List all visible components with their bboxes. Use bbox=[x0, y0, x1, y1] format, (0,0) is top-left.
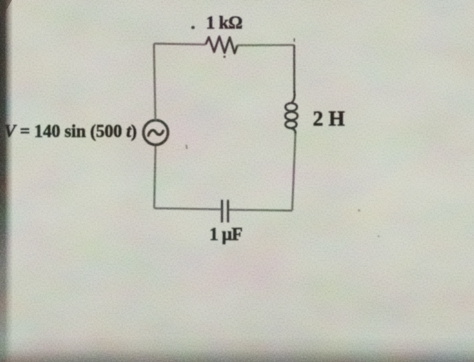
dark page edge on left bbox=[0, 0, 13, 362]
inductor L (2 H) coil bbox=[285, 91, 297, 134]
wire: top, right segment from resistor bbox=[237, 44, 294, 46]
wire: right, lower vertical bbox=[292, 134, 295, 211]
wire: left, lower vertical bbox=[154, 145, 155, 209]
speck: faint dot right of circuit bbox=[358, 209, 361, 212]
speck: comma left of 1 kOhm bbox=[191, 26, 194, 29]
speck: dash near source bbox=[185, 145, 188, 149]
wire: left, upper vertical bbox=[154, 44, 156, 121]
speck: dot below resistor bbox=[223, 56, 225, 58]
svg-text:V = 140 sin (500 t): V = 140 sin (500 t) bbox=[4, 121, 137, 141]
wire: bottom, right segment to capacitor bbox=[229, 209, 292, 212]
svg-text:1 μF: 1 μF bbox=[209, 224, 242, 244]
svg-text:2 H: 2 H bbox=[313, 106, 345, 130]
resistor R (1 kOhm) zigzag bbox=[206, 37, 238, 54]
capacitor C (1 uF) plates bbox=[221, 200, 223, 223]
speck: tick above top-right corner bbox=[293, 38, 295, 42]
wire: top, left segment to resistor bbox=[154, 43, 206, 46]
AC source V circle bbox=[143, 120, 168, 145]
wire: right, upper vertical bbox=[293, 45, 295, 93]
svg-text:1 kΩ: 1 kΩ bbox=[206, 13, 242, 33]
speck: faint dot lower right bbox=[378, 235, 380, 237]
wire: bottom, left segment from capacitor bbox=[154, 208, 221, 209]
AC source sine symbol bbox=[148, 130, 163, 135]
